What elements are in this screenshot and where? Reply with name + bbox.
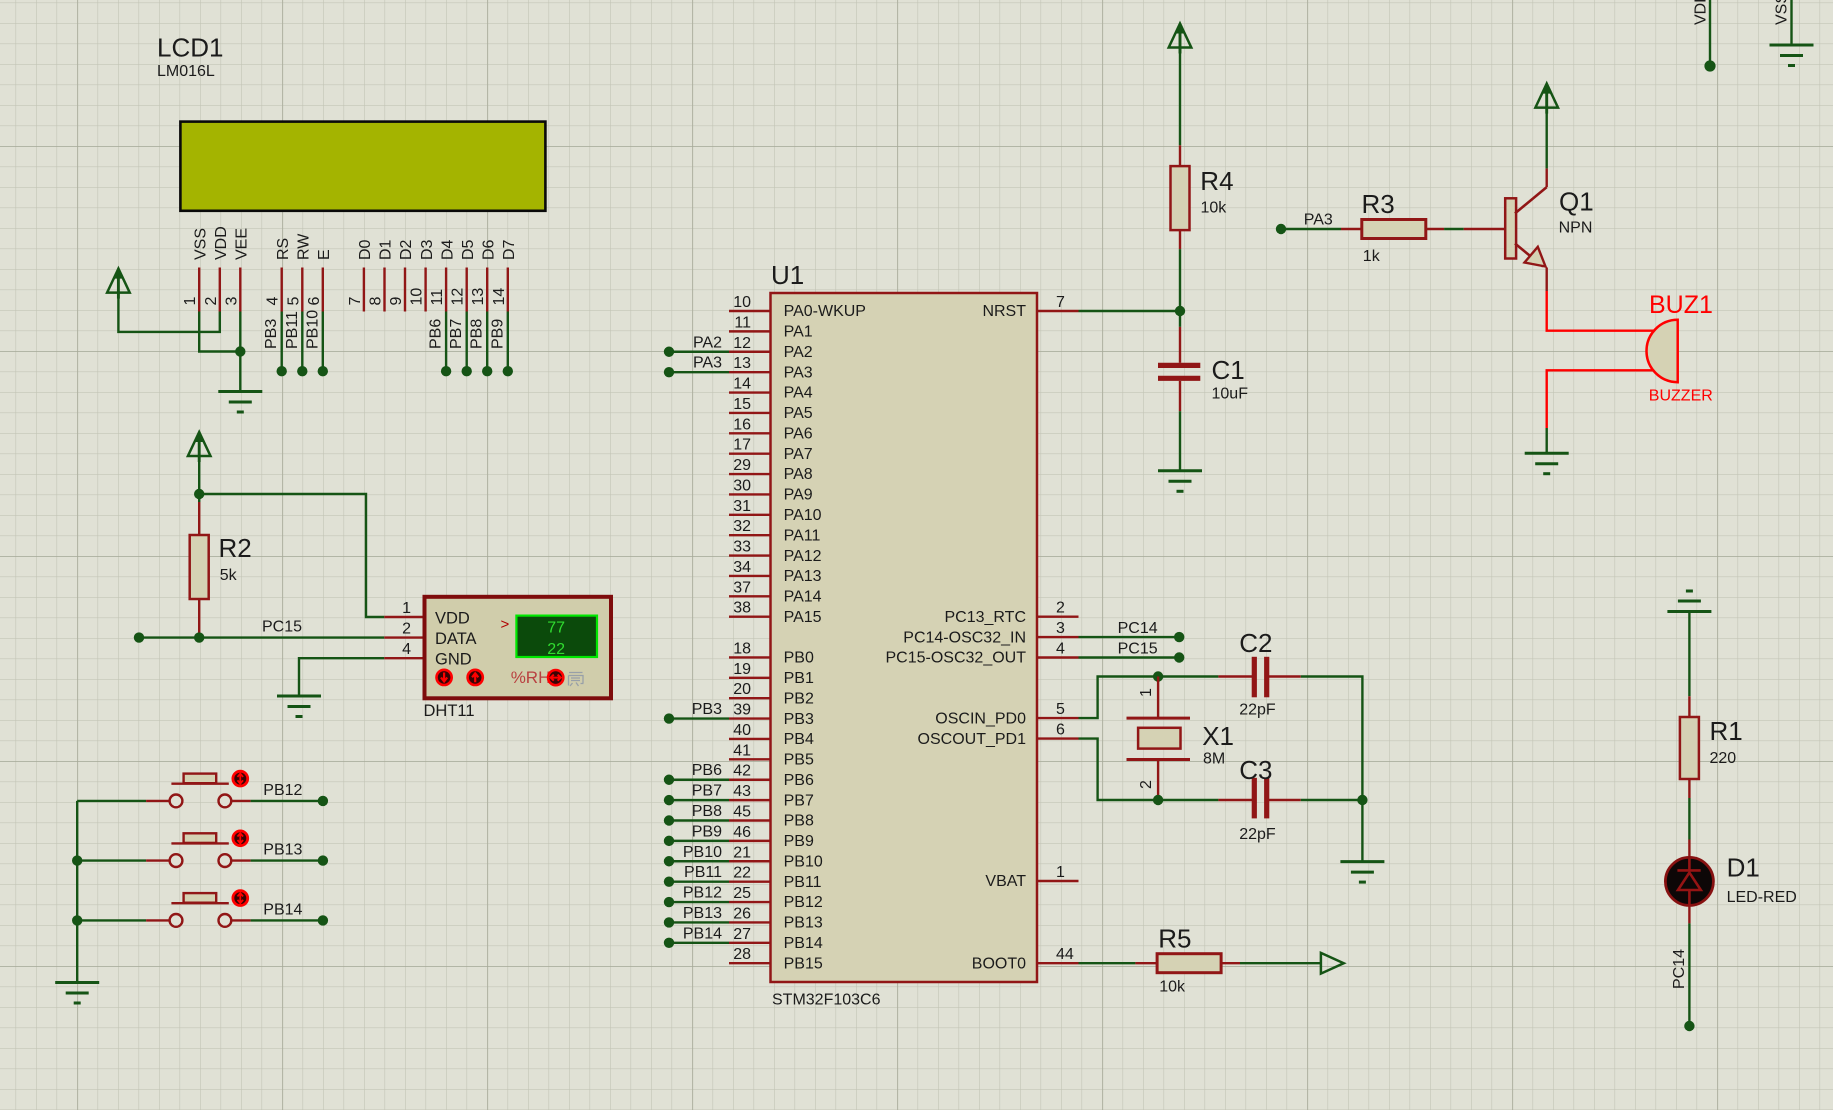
- U1 pin 15 (PA5) stub: [729, 412, 771, 414]
- svg-text:5k: 5k: [220, 567, 238, 584]
- svg-text:PA4: PA4: [784, 385, 813, 402]
- svg-text:C3: C3: [1239, 755, 1272, 785]
- svg-text:PA3: PA3: [784, 364, 813, 381]
- LCD pin 5 (RW) stub: [301, 268, 303, 312]
- svg-text:26: 26: [733, 905, 751, 922]
- svg-text:PB8: PB8: [784, 813, 814, 830]
- push button PB14 toggle icon: [233, 891, 248, 906]
- sensor U2 pin 1 stub: [384, 616, 423, 618]
- wire VDD net (top right): [1709, 0, 1711, 66]
- svg-text:19: 19: [733, 661, 751, 678]
- svg-text:40: 40: [733, 722, 751, 739]
- wire PC15 net to U2 DATA: [139, 636, 384, 638]
- node PB3 terminal dot: [664, 713, 674, 723]
- ground symbol below C1: [1158, 469, 1202, 472]
- sensor U2 pin 4 stub: [384, 657, 423, 659]
- U1 pin 46 (PB9) stub: [729, 840, 771, 842]
- crystal X1 pin 2 stub: [1157, 760, 1159, 801]
- U1 pin 1 (VBAT) stub: [1037, 880, 1079, 882]
- wire BOOT0 to R5: [1079, 962, 1136, 964]
- svg-text:12: 12: [733, 335, 751, 352]
- ground symbol below C3: [1340, 860, 1384, 863]
- svg-text:PB7: PB7: [784, 792, 814, 809]
- U2 temperature unit glyph (grey): [569, 673, 584, 687]
- U1 pin 27 (PB14) stub: [729, 942, 771, 944]
- U1 pin 34 (PA13) stub: [729, 575, 771, 577]
- U1 pin 12 (PA2) stub: [729, 351, 771, 353]
- wire PB13 switch to terminal: [231, 859, 250, 861]
- svg-text:20: 20: [733, 681, 751, 698]
- wire net PB11 to U1: [669, 880, 729, 882]
- wire net PB3 to U1: [669, 717, 729, 719]
- junction dot X1 pin1 node: [1153, 671, 1163, 681]
- svg-text:45: 45: [733, 804, 751, 821]
- svg-text:VSS: VSS: [192, 228, 209, 260]
- svg-text:1: 1: [1138, 688, 1155, 697]
- svg-text:28: 28: [733, 946, 751, 963]
- svg-text:12: 12: [450, 288, 467, 306]
- U1 pin 28 (PB15) stub: [729, 962, 771, 964]
- capacitor C1: [1158, 363, 1200, 368]
- wire R1 to D1: [1688, 798, 1690, 840]
- U1 pin 40 (PB4) stub: [729, 738, 771, 740]
- ground symbol below buttons: [55, 981, 99, 984]
- svg-text:41: 41: [733, 742, 751, 759]
- push button PB12 actuator bar: [171, 783, 228, 785]
- node PB10 terminal dot: [318, 366, 328, 376]
- U1 pin 14 (PA4) stub: [729, 391, 771, 393]
- svg-text:PB11: PB11: [684, 864, 722, 881]
- wire bottom rail to C3: [1158, 799, 1218, 801]
- svg-text:NPN: NPN: [1559, 220, 1593, 237]
- LCD LM016L screen body: [180, 122, 545, 211]
- node PB8 terminal dot: [482, 366, 492, 376]
- svg-text:2: 2: [203, 297, 220, 306]
- svg-text:>: >: [501, 616, 510, 633]
- svg-text:7: 7: [347, 297, 364, 306]
- svg-text:30: 30: [733, 477, 751, 494]
- wire C2 to right rail: [1301, 677, 1363, 801]
- LED D1 cathode pin: [1688, 905, 1690, 924]
- junction dot rail/PB14: [72, 915, 82, 925]
- svg-text:PB11: PB11: [784, 874, 822, 891]
- wire Q1 collector to power: [1545, 107, 1547, 168]
- wire net PB7 to U1: [669, 799, 729, 801]
- U1 pin 26 (PB13) stub: [729, 921, 771, 923]
- wire net PB14 to U1: [669, 942, 729, 944]
- wire PA3 to R3: [1281, 228, 1341, 230]
- svg-text:PA2: PA2: [693, 334, 722, 351]
- wire to ground below buzzer: [1545, 428, 1547, 453]
- push button PB13 toggle icon: [233, 831, 248, 846]
- node PB12 terminal dot: [664, 897, 674, 907]
- wire power to R2 node: [198, 455, 200, 494]
- Q1 emitter diagonal: [1515, 244, 1543, 267]
- svg-text:4: 4: [1056, 641, 1065, 658]
- LED D1 body: [1665, 857, 1713, 905]
- svg-text:PB8: PB8: [692, 803, 722, 820]
- svg-text:LED-RED: LED-RED: [1727, 889, 1797, 906]
- node PB10 terminal dot: [664, 856, 674, 866]
- wire U2 GND pin to ground: [299, 658, 384, 696]
- wire OSCIN_PD0 to crystal net: [1079, 677, 1159, 719]
- U2 LCD readout display: [516, 616, 597, 657]
- svg-text:PA10: PA10: [784, 507, 822, 524]
- svg-text:PB6: PB6: [784, 772, 814, 789]
- svg-text:X1: X1: [1202, 721, 1234, 751]
- node PB6 terminal dot: [664, 775, 674, 785]
- inverted ground symbol above R1: [1667, 610, 1711, 613]
- svg-text:PB8: PB8: [469, 319, 486, 349]
- svg-text:PA5: PA5: [784, 405, 813, 422]
- node PB12 terminal dot: [318, 796, 328, 806]
- U1 pin 20 (PB2) stub: [729, 697, 771, 699]
- svg-text:6: 6: [1056, 722, 1065, 739]
- svg-text:32: 32: [733, 518, 751, 535]
- wire LCD E to net PB10: [322, 312, 324, 372]
- resistor R4 bottom pin: [1179, 230, 1181, 249]
- svg-text:PA3: PA3: [1304, 212, 1333, 229]
- svg-text:PA0-WKUP: PA0-WKUP: [784, 303, 866, 320]
- svg-text:PB9: PB9: [692, 823, 722, 840]
- svg-text:21: 21: [733, 844, 751, 861]
- svg-text:VDD: VDD: [1693, 0, 1710, 25]
- svg-text:22: 22: [733, 865, 751, 882]
- node PB13 terminal dot: [664, 917, 674, 927]
- resistor R1 bottom pin: [1688, 779, 1690, 798]
- svg-text:2: 2: [1056, 600, 1065, 617]
- junction dot right rail: [1357, 795, 1367, 805]
- resistor R5 left pin: [1135, 962, 1157, 964]
- svg-text:PA13: PA13: [784, 568, 822, 585]
- push button PB13 left contact: [170, 854, 183, 867]
- resistor R2 top pin: [198, 494, 200, 502]
- node PC14 terminal dot: [1174, 632, 1184, 642]
- wire net PB13 to U1: [669, 921, 729, 923]
- LCD pin 9 (D2) stub: [404, 268, 406, 312]
- LCD pin 2 (VDD) stub: [219, 268, 221, 312]
- svg-text:46: 46: [733, 824, 751, 841]
- svg-text:PA12: PA12: [784, 548, 822, 565]
- Q1 collector lead: [1545, 168, 1547, 187]
- U1 pin 39 (PB3) stub: [729, 717, 771, 719]
- svg-text:PB3: PB3: [263, 319, 280, 349]
- svg-text:NRST: NRST: [982, 303, 1026, 320]
- node VDD terminal dot: [1704, 60, 1715, 71]
- svg-text:PB11: PB11: [284, 311, 301, 349]
- wire C3 to right rail: [1301, 799, 1363, 801]
- svg-text:DATA: DATA: [435, 630, 477, 648]
- junction dot NRST node: [1175, 306, 1185, 316]
- svg-text:4: 4: [402, 641, 411, 658]
- wire PC14 net: [1079, 636, 1180, 638]
- svg-text:PB12: PB12: [263, 782, 302, 799]
- svg-text:1: 1: [1056, 864, 1065, 881]
- power symbol (VDD rail) near LCD: [107, 269, 130, 293]
- wire LCD RW to net PB11: [301, 312, 303, 372]
- svg-text:5: 5: [285, 297, 302, 306]
- svg-text:PA14: PA14: [784, 589, 822, 606]
- resistor R1: [1680, 717, 1699, 779]
- svg-text:C1: C1: [1212, 355, 1245, 385]
- svg-text:STM32F103C6: STM32F103C6: [772, 992, 881, 1009]
- wire power to LCD VDD pin: [118, 292, 219, 332]
- svg-text:GND: GND: [435, 651, 472, 669]
- wire LCD D7 to net PB9: [507, 312, 509, 372]
- svg-text:PA8: PA8: [784, 466, 813, 483]
- svg-text:27: 27: [733, 926, 751, 943]
- svg-text:10uF: 10uF: [1212, 386, 1249, 403]
- node PB14 terminal dot: [664, 938, 674, 948]
- ground symbol VSS: [1770, 44, 1814, 47]
- svg-text:10: 10: [733, 294, 751, 311]
- svg-text:D1: D1: [378, 239, 395, 260]
- svg-text:PB6: PB6: [692, 762, 722, 779]
- wire net PA2 to U1: [669, 351, 729, 353]
- svg-text:D3: D3: [419, 239, 436, 260]
- capacitor C2 left pin: [1218, 675, 1254, 677]
- wire R4 to NRST node: [1179, 249, 1181, 327]
- svg-text:BOOT0: BOOT0: [972, 955, 1026, 972]
- U1 pin 38 (PA15) stub: [729, 616, 771, 618]
- wire C1 to ground: [1179, 411, 1181, 471]
- wire power to R4: [1179, 47, 1181, 146]
- svg-text:PC13_RTC: PC13_RTC: [944, 609, 1026, 626]
- LED D1 anode pin: [1688, 840, 1690, 862]
- wire PB12 switch to terminal: [231, 800, 250, 802]
- svg-text:9: 9: [388, 297, 405, 306]
- svg-text:PB2: PB2: [784, 690, 814, 707]
- wire LCD D4 to net PB6: [445, 312, 447, 372]
- U1 pin 22 (PB11) stub: [729, 880, 771, 882]
- crystal X1 pin 1 stub: [1157, 677, 1159, 719]
- svg-text:R4: R4: [1200, 166, 1233, 196]
- node PA3 terminal dot (R3 input): [1276, 224, 1286, 234]
- svg-text:10k: 10k: [1159, 979, 1186, 996]
- svg-text:11: 11: [734, 314, 751, 331]
- U1 pin 25 (PB12) stub: [729, 901, 771, 903]
- junction dot above R2: [194, 489, 204, 499]
- push button PB12 toggle icon: [233, 771, 248, 786]
- resistor R3: [1362, 220, 1426, 239]
- svg-text:PB14: PB14: [263, 901, 302, 918]
- LCD pin 13 (D6) stub: [486, 268, 488, 312]
- svg-text:220: 220: [1710, 750, 1737, 767]
- svg-text:7: 7: [1056, 294, 1065, 311]
- svg-text:VEE: VEE: [234, 228, 251, 260]
- svg-text:R3: R3: [1362, 189, 1395, 219]
- svg-text:D0: D0: [357, 239, 374, 260]
- wire net PB6 to U1: [669, 779, 729, 781]
- LCD pin 14 (D7) stub: [507, 268, 509, 312]
- Q1 emitter arrowhead: [1525, 247, 1546, 267]
- resistor R3 right pin: [1426, 228, 1444, 230]
- svg-text:OSCIN_PD0: OSCIN_PD0: [935, 710, 1026, 727]
- svg-text:11: 11: [429, 289, 446, 306]
- svg-text:OSCOUT_PD1: OSCOUT_PD1: [918, 731, 1027, 748]
- node PC14 terminal dot at D1: [1684, 1021, 1694, 1031]
- node PA2 terminal dot: [664, 347, 674, 357]
- U1 pin 2 (PC13_RTC) stub: [1037, 616, 1079, 618]
- resistor R5: [1157, 954, 1221, 973]
- svg-text:VBAT: VBAT: [985, 873, 1026, 890]
- capacitor C3: [1252, 778, 1257, 819]
- svg-text:3: 3: [1056, 620, 1065, 637]
- svg-text:PB1: PB1: [784, 670, 814, 687]
- wire Q1 emitter to buzzer (red net): [1547, 291, 1654, 331]
- svg-text:PB9: PB9: [784, 833, 814, 850]
- U2 down-arrow button: [437, 670, 452, 685]
- LCD pin 4 (RS) stub: [281, 268, 283, 312]
- U1 pin 45 (PB8) stub: [729, 819, 771, 821]
- node PB8 terminal dot: [664, 815, 674, 825]
- svg-text:PB4: PB4: [784, 731, 814, 748]
- ground symbol below LCD: [218, 390, 262, 393]
- U1 pin 33 (PA12) stub: [729, 554, 771, 556]
- U1 pin 6 (OSCOUT_PD1) stub: [1037, 737, 1079, 739]
- LCD pin 11 (D4) stub: [445, 268, 447, 312]
- node PB7 terminal dot: [462, 366, 472, 376]
- wire VSS net (top right): [1790, 0, 1792, 45]
- junction dot R2/DATA: [194, 632, 204, 642]
- svg-text:PB13: PB13: [683, 905, 722, 922]
- capacitor C1 bottom pin: [1179, 381, 1181, 411]
- capacitor C1 top pin: [1179, 327, 1181, 363]
- svg-text:13: 13: [733, 355, 751, 372]
- node PB11 terminal dot: [664, 876, 674, 886]
- svg-text:PC15: PC15: [1118, 641, 1158, 658]
- capacitor C3 right pin: [1267, 799, 1301, 801]
- wire top rail to C2: [1158, 675, 1218, 677]
- svg-text:1: 1: [182, 297, 199, 306]
- U1 pin 17 (PA7) stub: [729, 452, 771, 454]
- U1 pin 32 (PA11) stub: [729, 534, 771, 536]
- svg-text:PB13: PB13: [784, 915, 823, 932]
- svg-text:PC15: PC15: [262, 619, 302, 636]
- crystal X1 body: [1127, 717, 1191, 720]
- U1 pin 13 (PA3) stub: [729, 371, 771, 373]
- svg-text:14: 14: [733, 376, 751, 393]
- svg-text:D6: D6: [480, 239, 497, 260]
- wire LCD D6 to net PB8: [486, 312, 488, 372]
- node PB14 terminal dot: [318, 915, 328, 925]
- svg-text:PB15: PB15: [784, 955, 823, 972]
- U2 left-right arrow button: [548, 670, 563, 685]
- push button PB13 actuator bar: [171, 842, 228, 844]
- Q1 collector diagonal: [1515, 187, 1547, 213]
- U1 pin 37 (PA14) stub: [729, 595, 771, 597]
- svg-text:PB5: PB5: [784, 752, 814, 769]
- wire LCD VSS down: [199, 312, 240, 352]
- svg-text:PA3: PA3: [693, 355, 722, 372]
- svg-text:PA9: PA9: [784, 487, 813, 504]
- svg-text:PC14: PC14: [1118, 620, 1158, 637]
- svg-text:33: 33: [733, 539, 751, 556]
- push button PB12 left contact: [170, 795, 183, 808]
- resistor R1 top pin: [1688, 696, 1690, 717]
- svg-text:10: 10: [409, 288, 426, 306]
- wire buzzer bottom to ground (red net): [1547, 370, 1653, 428]
- wire PC15 net: [1079, 656, 1180, 658]
- svg-text:PB10: PB10: [304, 310, 321, 349]
- junction dot VEE/VSS: [235, 346, 245, 356]
- svg-text:D4: D4: [439, 239, 456, 260]
- ground symbol below U2: [277, 695, 321, 698]
- svg-text:Q1: Q1: [1559, 187, 1594, 217]
- svg-text:U1: U1: [771, 260, 804, 290]
- svg-text:VDD: VDD: [213, 226, 230, 260]
- svg-text:PB14: PB14: [784, 935, 823, 952]
- svg-text:VDD: VDD: [435, 610, 470, 628]
- node PB9 terminal dot: [664, 836, 674, 846]
- svg-text:PB13: PB13: [263, 842, 302, 859]
- U1 pin 16 (PA6) stub: [729, 432, 771, 434]
- svg-text:LM016L: LM016L: [157, 63, 215, 80]
- svg-text:PB3: PB3: [692, 701, 722, 718]
- svg-text:BUZ1: BUZ1: [1649, 291, 1713, 319]
- svg-text:PA11: PA11: [784, 527, 821, 544]
- svg-text:22pF: 22pF: [1239, 702, 1276, 719]
- wire NRST to R4/C1: [1079, 310, 1181, 312]
- capacitor C2: [1252, 657, 1257, 698]
- svg-text:10k: 10k: [1201, 200, 1228, 217]
- junction dot rail/PB13: [72, 855, 82, 865]
- svg-text:PB0: PB0: [784, 650, 814, 667]
- U1 pin 10 (PA0-WKUP) stub: [729, 310, 771, 312]
- LCD pin 3 (VEE) stub: [239, 268, 241, 312]
- node PB3 terminal dot: [277, 366, 287, 376]
- svg-text:44: 44: [1056, 946, 1074, 963]
- svg-text:LCD1: LCD1: [157, 33, 223, 63]
- svg-text:42: 42: [733, 763, 751, 780]
- U1 pin 4 (PC15-OSC32_OUT) stub: [1037, 656, 1079, 658]
- svg-text:39: 39: [733, 702, 751, 719]
- wire ground to R1: [1688, 612, 1690, 697]
- LCD pin 10 (D3) stub: [424, 268, 426, 312]
- U1 pin 11 (PA1) stub: [729, 330, 771, 332]
- svg-text:3: 3: [223, 297, 240, 306]
- svg-text:RW: RW: [296, 233, 313, 260]
- resistor R2: [190, 535, 209, 599]
- svg-text:6: 6: [306, 297, 323, 306]
- svg-text:31: 31: [733, 498, 751, 515]
- capacitor C3 left pin: [1218, 799, 1254, 801]
- resistor R2 bottom pin: [198, 599, 200, 638]
- svg-text:PB3: PB3: [784, 711, 814, 728]
- svg-text:PA6: PA6: [784, 425, 813, 442]
- svg-text:13: 13: [470, 288, 487, 306]
- U1 pin 3 (PC14-OSC32_IN) stub: [1037, 636, 1079, 638]
- svg-text:16: 16: [733, 416, 751, 433]
- node PA3 terminal dot: [664, 367, 674, 377]
- wire net PB9 to U1: [669, 840, 729, 842]
- node PC15 terminal dot: [1174, 652, 1184, 662]
- LCD pin 6 (E) stub: [322, 268, 324, 312]
- svg-text:PB12: PB12: [683, 885, 722, 902]
- U1 pin 31 (PA10) stub: [729, 514, 771, 516]
- wire LCD VEE to ground: [239, 312, 241, 392]
- wire power node to U2 VDD: [199, 494, 384, 617]
- svg-text:PC14-OSC32_IN: PC14-OSC32_IN: [903, 629, 1026, 646]
- output arrow terminal: [1321, 953, 1344, 974]
- svg-text:34: 34: [733, 559, 751, 576]
- svg-text:PB10: PB10: [784, 853, 823, 870]
- wire net PB10 to U1: [669, 860, 729, 862]
- svg-text:37: 37: [733, 579, 751, 596]
- resistor R4: [1171, 166, 1190, 230]
- wire R3 to Q1 base: [1444, 228, 1464, 230]
- svg-text:5: 5: [1056, 701, 1065, 718]
